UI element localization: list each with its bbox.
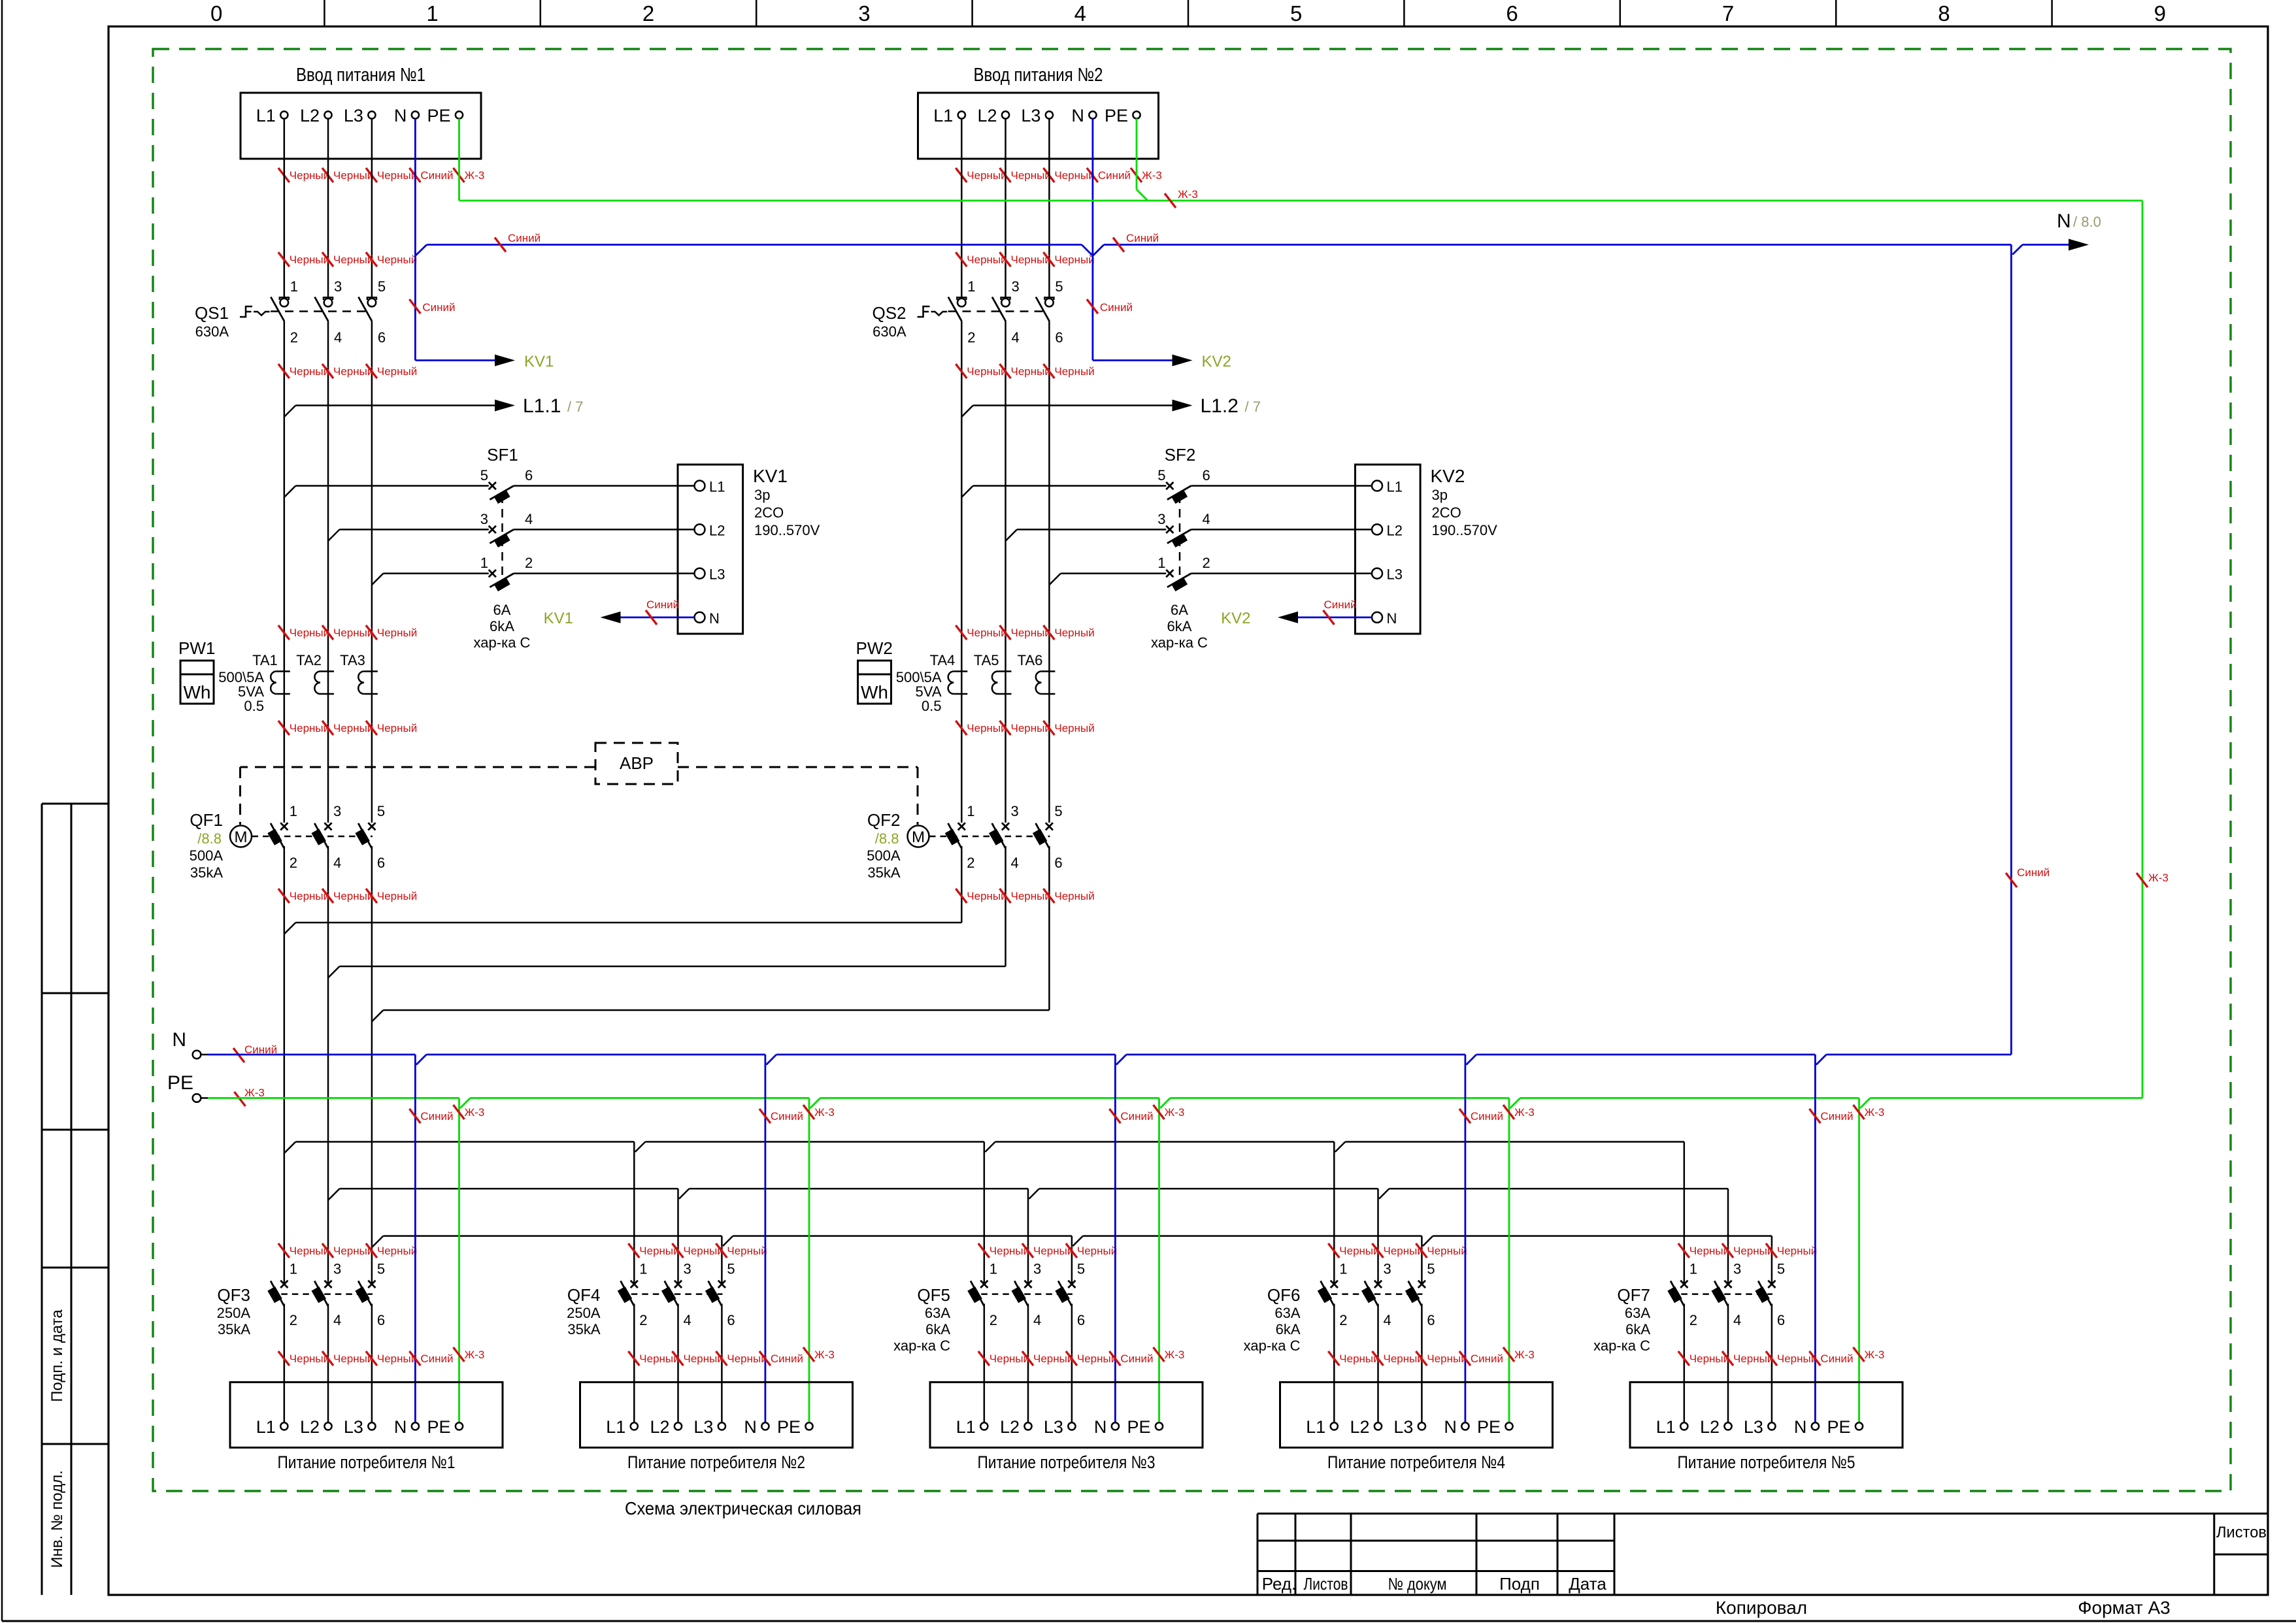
QF pole blade bbox=[314, 1281, 328, 1305]
terminal PE of consumer 5 bbox=[1855, 1422, 1863, 1430]
input terminal box Ввод питания №2 bbox=[918, 93, 1159, 159]
svg-text:3: 3 bbox=[858, 1, 870, 25]
wire to SF pole bbox=[973, 485, 1167, 487]
svg-text:3: 3 bbox=[1012, 278, 1020, 295]
wire label row below QS2 bbox=[956, 252, 967, 267]
svg-text:5: 5 bbox=[1157, 467, 1165, 484]
svg-text:/ 8.0: / 8.0 bbox=[2073, 214, 2101, 230]
wire label Ж-3 on PE bus after input 2 bbox=[1165, 193, 1176, 208]
drop wire L1 from bus1 to QF4 bbox=[633, 1142, 635, 1285]
wire to SF pole bbox=[383, 572, 488, 574]
svg-text:L1: L1 bbox=[1306, 1417, 1325, 1437]
svg-text:N: N bbox=[394, 106, 407, 125]
QF6 mechanical link dashed bbox=[1320, 1293, 1422, 1295]
QF pole release (filled) bbox=[1318, 1287, 1332, 1303]
svg-text:6: 6 bbox=[1077, 1312, 1085, 1328]
svg-text:N: N bbox=[1071, 106, 1084, 125]
wire label row below QF1 bbox=[278, 889, 290, 903]
KV2 terminal L1 bbox=[1372, 481, 1382, 491]
branch arrow to KV2 coil bbox=[1093, 359, 1173, 361]
SF pole contact cross bbox=[489, 570, 496, 577]
svg-text:PE: PE bbox=[1827, 1417, 1850, 1437]
svg-text:L3: L3 bbox=[693, 1417, 713, 1437]
SF pole release (filled) bbox=[493, 533, 510, 548]
svg-text:/ 7: / 7 bbox=[567, 399, 583, 415]
terminal N of consumer 2 bbox=[761, 1422, 769, 1430]
wire from SF pole to KV terminal bbox=[1191, 485, 1373, 487]
terminal PE of consumer 1 bbox=[456, 1422, 463, 1430]
svg-text:Ж-3: Ж-3 bbox=[465, 169, 485, 182]
drop wire L2 from bus2 to QF6 bbox=[1377, 1189, 1379, 1284]
svg-text:0.5: 0.5 bbox=[244, 698, 264, 714]
consumer terminal box 3 bbox=[930, 1382, 1203, 1447]
svg-text:2: 2 bbox=[639, 1312, 647, 1328]
svg-text:0.5: 0.5 bbox=[922, 698, 942, 714]
consumer terminal box 2 bbox=[580, 1382, 853, 1447]
svg-text:Ж-3: Ж-3 bbox=[1165, 1349, 1185, 1361]
QF pole contact cross bbox=[631, 1281, 638, 1288]
wire, upper pin of QS pole at x=434.8 bbox=[284, 119, 286, 298]
SF pole release (filled) bbox=[1171, 577, 1188, 591]
drop wire L3 from bus3 to QF7 bbox=[1771, 1236, 1773, 1285]
QF pole release (filled) bbox=[1033, 828, 1047, 845]
wire label row below input 2 bbox=[956, 168, 967, 182]
svg-text:Черный: Черный bbox=[1077, 1245, 1117, 1257]
svg-text:4: 4 bbox=[333, 1312, 341, 1328]
terminal L3 of consumer 3 bbox=[1068, 1422, 1075, 1430]
wire label Синий on KV2 coil wire bbox=[1323, 610, 1335, 625]
svg-text:5: 5 bbox=[727, 1260, 735, 1277]
svg-text:Черный: Черный bbox=[727, 1245, 767, 1257]
QS blade bbox=[271, 297, 284, 321]
wires QF7 outputs down to consumer box bbox=[1684, 1303, 1686, 1422]
QF pole blade bbox=[271, 1281, 284, 1305]
wire label row below QF3 bbox=[278, 1351, 290, 1366]
QF pole blade bbox=[948, 823, 962, 848]
svg-text:500A: 500A bbox=[867, 847, 901, 864]
svg-text:TA2: TA2 bbox=[296, 652, 322, 668]
terminal PE of consumer 2 bbox=[805, 1422, 812, 1430]
QF pole release (filled) bbox=[267, 828, 282, 845]
svg-text:M: M bbox=[235, 828, 248, 846]
wire branch jog from feeder to SF pole bbox=[328, 529, 340, 541]
svg-text:Питание потребителя №1: Питание потребителя №1 bbox=[278, 1452, 456, 1472]
svg-text:3: 3 bbox=[1033, 1260, 1041, 1277]
terminal N of consumer 4 bbox=[1461, 1422, 1469, 1430]
terminal L3 of consumer 4 bbox=[1418, 1422, 1425, 1430]
svg-text:хар-ка C: хар-ка C bbox=[893, 1337, 950, 1354]
QF pole blade bbox=[621, 1281, 635, 1305]
arrow to KV1 reference bbox=[601, 612, 621, 623]
drop wire L3 from bus3 to QF4 bbox=[721, 1236, 723, 1285]
svg-text:4: 4 bbox=[334, 329, 342, 346]
svg-text:0: 0 bbox=[210, 1, 222, 25]
svg-text:TA1: TA1 bbox=[252, 652, 278, 668]
svg-text:6: 6 bbox=[378, 329, 386, 346]
svg-text:Синий: Синий bbox=[1100, 301, 1133, 314]
svg-text:Синий: Синий bbox=[771, 1352, 803, 1365]
QF pole blade bbox=[271, 823, 284, 848]
wire label Синий on right riser bbox=[2006, 873, 2017, 887]
wire label Ж-3 on PE drop of consumer 1 bbox=[454, 1105, 465, 1119]
svg-text:5: 5 bbox=[378, 278, 386, 295]
svg-text:1: 1 bbox=[1157, 555, 1165, 571]
svg-text:Синий: Синий bbox=[1324, 598, 1357, 611]
QF pole contact cross bbox=[324, 1281, 331, 1288]
svg-text:N: N bbox=[744, 1417, 757, 1437]
svg-text:Синий: Синий bbox=[1098, 169, 1131, 182]
svg-text:Ред.: Ред. bbox=[1262, 1574, 1296, 1594]
QF pole contact cross bbox=[1046, 823, 1053, 830]
svg-text:N: N bbox=[172, 1029, 186, 1051]
terminal L1 of consumer 3 bbox=[980, 1422, 988, 1430]
drop wire L3 from bus3 to QF5 bbox=[1071, 1236, 1073, 1285]
wire, upper pin of QS pole at x=1538.5 bbox=[1005, 119, 1007, 298]
svg-text:Ж-3: Ж-3 bbox=[814, 1106, 835, 1119]
QS fixed contact cap bbox=[280, 297, 289, 300]
QF pole contact cross bbox=[324, 823, 331, 830]
svg-text:SF1: SF1 bbox=[487, 445, 518, 465]
QF pole contact cross bbox=[1680, 1281, 1688, 1288]
svg-text:2: 2 bbox=[290, 855, 297, 871]
wire label Синий on N bus after input 1 bbox=[495, 238, 506, 252]
branch arrow to KV1 coil bbox=[415, 359, 495, 361]
svg-text:№ докум: № докум bbox=[1388, 1574, 1447, 1594]
QF pole blade bbox=[1058, 1281, 1072, 1305]
svg-text:Формат А3: Формат А3 bbox=[2078, 1598, 2171, 1618]
svg-text:35kA: 35kA bbox=[567, 1321, 600, 1337]
SF pole release (filled) bbox=[493, 489, 510, 504]
SF pole blade bbox=[490, 529, 514, 543]
terminal L1 of input 1 bbox=[280, 111, 288, 118]
svg-text:N: N bbox=[394, 1417, 407, 1437]
QF pole contact cross bbox=[368, 823, 375, 830]
svg-text:N: N bbox=[709, 610, 720, 627]
svg-text:2: 2 bbox=[1203, 555, 1210, 571]
wires QF2 outputs down bbox=[961, 846, 963, 923]
svg-text:PW1: PW1 bbox=[178, 638, 215, 658]
wire label Ж-3 on PE drop of consumer 2 bbox=[803, 1105, 814, 1119]
right blue N riser bbox=[2010, 245, 2012, 1055]
KV1 terminal N bbox=[695, 612, 705, 623]
wire label row above QF3 bbox=[278, 1243, 290, 1258]
svg-text:Ж-3: Ж-3 bbox=[1514, 1106, 1535, 1119]
svg-text:L1.1: L1.1 bbox=[523, 395, 561, 417]
svg-text:PE: PE bbox=[167, 1072, 193, 1094]
svg-text:1: 1 bbox=[639, 1260, 647, 1277]
svg-text:6: 6 bbox=[1055, 329, 1063, 346]
QF4 mechanical link dashed bbox=[620, 1293, 722, 1295]
wire label row above TA (input 2) bbox=[956, 625, 967, 640]
title block grid bbox=[1257, 1513, 2268, 1515]
svg-text:6: 6 bbox=[1427, 1312, 1435, 1328]
QF pole contact cross bbox=[280, 823, 288, 830]
terminal L2 of input 1 bbox=[324, 111, 331, 118]
svg-text:6kA: 6kA bbox=[1625, 1321, 1650, 1337]
svg-text:KV2: KV2 bbox=[1431, 466, 1465, 486]
terminal N of consumer 5 bbox=[1812, 1422, 1819, 1430]
interconnect bus L2 bbox=[328, 966, 340, 978]
svg-text:L1: L1 bbox=[606, 1417, 625, 1437]
svg-text:KV2: KV2 bbox=[1202, 353, 1231, 370]
svg-text:Черный: Черный bbox=[1054, 254, 1094, 266]
wire label row above QF5 bbox=[978, 1243, 990, 1258]
QF pole release (filled) bbox=[618, 1287, 632, 1303]
terminal L3 of consumer 1 bbox=[368, 1422, 375, 1430]
wire label Синий on N drop of consumer 3 bbox=[1109, 1109, 1120, 1123]
wires QS1 lower pins down bbox=[284, 321, 286, 823]
net arrow L1.2 / 7 bbox=[961, 406, 973, 418]
QF pole contact cross bbox=[1331, 1281, 1338, 1288]
drop wire L2 from bus2 to QF5 bbox=[1027, 1189, 1029, 1284]
svg-text:Ввод питания №1: Ввод питания №1 bbox=[296, 65, 425, 86]
consumer terminal box 5 bbox=[1630, 1382, 1903, 1447]
QF pole blade bbox=[1365, 1281, 1378, 1305]
wire branch jog from feeder to SF pole bbox=[372, 574, 384, 585]
wire to SF pole bbox=[1017, 529, 1166, 531]
svg-text:QS1: QS1 bbox=[195, 303, 229, 323]
svg-text:3: 3 bbox=[333, 803, 341, 819]
svg-text:L3: L3 bbox=[1387, 566, 1403, 583]
svg-text:L2: L2 bbox=[1000, 1417, 1020, 1437]
drop wire N (blue) to consumer 1 bbox=[414, 1055, 416, 1422]
wire label Синий on N vertical 1 bbox=[409, 299, 420, 314]
drop wire PE (green) to consumer 1 bbox=[458, 1098, 460, 1423]
svg-text:/8.8: /8.8 bbox=[197, 830, 222, 847]
QF pole contact cross bbox=[674, 1281, 682, 1288]
svg-text:2CO: 2CO bbox=[1432, 504, 1461, 521]
terminal N of consumer 3 bbox=[1112, 1422, 1119, 1430]
svg-text:KV1: KV1 bbox=[753, 466, 788, 486]
QS contact circle bbox=[324, 299, 333, 307]
svg-text:6: 6 bbox=[727, 1312, 735, 1328]
svg-text:500A: 500A bbox=[190, 847, 224, 864]
terminal L1 of consumer 2 bbox=[631, 1422, 638, 1430]
wire label Синий on KV1 coil wire bbox=[646, 610, 657, 625]
QF pole blade bbox=[971, 1281, 984, 1305]
automatic transfer switch ABP dashed box bbox=[595, 743, 678, 784]
consumer terminal box 4 bbox=[1280, 1382, 1553, 1447]
svg-text:1: 1 bbox=[1339, 1260, 1347, 1277]
svg-text:PE: PE bbox=[1127, 1417, 1150, 1437]
QF pole release (filled) bbox=[661, 1287, 676, 1303]
svg-text:Черный: Черный bbox=[377, 627, 417, 639]
wire label row below TA (input 1) bbox=[278, 721, 290, 735]
svg-text:4: 4 bbox=[684, 1312, 691, 1328]
svg-text:PE: PE bbox=[777, 1417, 801, 1437]
wire label row 3 below QS1 bbox=[278, 364, 290, 378]
svg-text:6kA: 6kA bbox=[925, 1321, 950, 1337]
SF pole release (filled) bbox=[493, 577, 510, 591]
svg-text:L1: L1 bbox=[1656, 1417, 1676, 1437]
wire, upper pin of QS pole at x=1605.4 bbox=[1048, 119, 1050, 298]
QF pole contact cross bbox=[368, 1281, 375, 1288]
wires QF3 outputs down to consumer box bbox=[284, 1303, 286, 1422]
QF pole contact cross bbox=[1002, 823, 1009, 830]
svg-text:2: 2 bbox=[290, 1312, 297, 1328]
dashed link ABP to QF1 drive bbox=[241, 766, 596, 768]
QS fixed contact cap bbox=[1001, 297, 1010, 300]
terminal L3 of consumer 2 bbox=[718, 1422, 725, 1430]
svg-text:6: 6 bbox=[525, 467, 533, 484]
drop wire N (blue) to consumer 5 bbox=[1814, 1055, 1816, 1422]
QS blade bbox=[948, 297, 962, 321]
KV1 coil N wire (blue) bbox=[620, 617, 695, 619]
QF pole blade bbox=[665, 1281, 678, 1305]
svg-text:хар-ка C: хар-ка C bbox=[1244, 1337, 1301, 1354]
svg-text:L2: L2 bbox=[1700, 1417, 1720, 1437]
svg-text:6A: 6A bbox=[1171, 602, 1188, 618]
svg-text:L1: L1 bbox=[256, 106, 276, 125]
svg-text:3p: 3p bbox=[1432, 487, 1448, 503]
svg-text:Ж-3: Ж-3 bbox=[1178, 188, 1198, 201]
svg-text:L1: L1 bbox=[933, 106, 953, 125]
QF pole release (filled) bbox=[1405, 1287, 1420, 1303]
svg-text:Синий: Синий bbox=[1126, 232, 1159, 244]
drop wire L3 from bus3 to QF6 bbox=[1421, 1236, 1423, 1285]
SF pole release (filled) bbox=[1171, 533, 1188, 548]
QS contact circle bbox=[1001, 299, 1010, 307]
svg-text:N: N bbox=[1794, 1417, 1807, 1437]
svg-text:3: 3 bbox=[334, 278, 342, 295]
svg-text:6: 6 bbox=[1054, 855, 1062, 871]
svg-text:L1: L1 bbox=[956, 1417, 976, 1437]
drop wire N (blue) to consumer 4 bbox=[1464, 1055, 1466, 1422]
SF pole blade bbox=[490, 486, 514, 500]
wire label Синий on N vertical 2 bbox=[1087, 299, 1098, 314]
bottom N bus blue horizontal with branch jogs bbox=[208, 1054, 415, 1056]
svg-text:1: 1 bbox=[290, 1260, 297, 1277]
drop wire L1 from bus1 to QF7 bbox=[1684, 1142, 1686, 1285]
svg-text:6A: 6A bbox=[493, 602, 511, 618]
wire, upper pin of QS pole at x=568.9 bbox=[371, 119, 373, 298]
svg-text:N: N bbox=[2057, 210, 2071, 232]
wire label row below QF6 bbox=[1328, 1351, 1339, 1366]
SF1 mechanical link dashed bbox=[501, 495, 503, 582]
QF pole release (filled) bbox=[1011, 1287, 1025, 1303]
svg-text:5: 5 bbox=[480, 467, 488, 484]
svg-text:TA5: TA5 bbox=[974, 652, 999, 668]
svg-text:6: 6 bbox=[1203, 467, 1210, 484]
svg-text:SF2: SF2 bbox=[1165, 445, 1196, 465]
wire label row above QF4 bbox=[628, 1243, 639, 1258]
SF pole blade bbox=[1167, 574, 1191, 587]
wire label Ж-3 near PE terminal bbox=[235, 1092, 246, 1106]
wire label Ж-3 on PE drop of consumer 3 bbox=[1154, 1105, 1165, 1119]
QF pole contact cross bbox=[1768, 1281, 1775, 1288]
QF7 mechanical link dashed bbox=[1671, 1293, 1772, 1295]
svg-text:5: 5 bbox=[1054, 803, 1062, 819]
svg-text:Ввод питания №2: Ввод питания №2 bbox=[974, 65, 1103, 86]
wire label Ж-3 on PE drop of consumer 5 bbox=[1854, 1105, 1865, 1119]
SF pole release (filled) bbox=[1171, 489, 1188, 504]
QS contact circle bbox=[280, 299, 289, 307]
svg-text:4: 4 bbox=[1012, 329, 1020, 346]
svg-text:Черный: Черный bbox=[377, 722, 417, 734]
svg-text:1: 1 bbox=[1689, 1260, 1697, 1277]
bottom PE bus green horizontal with branch jogs bbox=[208, 1097, 459, 1099]
svg-text:6: 6 bbox=[377, 855, 385, 871]
neutral wire N of input 1 (blue vertical) bbox=[414, 119, 416, 361]
QF1 motor drive M circle bbox=[230, 826, 252, 847]
QF pole blade bbox=[1408, 1281, 1422, 1305]
terminal L1 of input 2 bbox=[958, 111, 965, 118]
wire to SF pole bbox=[295, 485, 489, 487]
QF pole release (filled) bbox=[967, 1287, 982, 1303]
SF2 mechanical link dashed bbox=[1179, 495, 1181, 582]
QF pole release (filled) bbox=[311, 828, 325, 845]
svg-text:3: 3 bbox=[333, 1260, 341, 1277]
svg-text:5: 5 bbox=[377, 1260, 385, 1277]
QF pole contact cross bbox=[1418, 1281, 1425, 1288]
QF pole contact cross bbox=[280, 1281, 288, 1288]
wire from SF pole to KV terminal bbox=[514, 485, 695, 487]
svg-text:250A: 250A bbox=[567, 1305, 601, 1321]
svg-text:5: 5 bbox=[1427, 1260, 1435, 1277]
column ruler line and ticks bbox=[324, 0, 325, 27]
svg-text:4: 4 bbox=[525, 511, 533, 527]
QF pole contact cross bbox=[1374, 1281, 1382, 1288]
svg-text:Подп. и дата: Подп. и дата bbox=[48, 1309, 66, 1402]
SF pole contact cross bbox=[489, 526, 496, 533]
QS2 manual drive symbol bbox=[918, 306, 930, 317]
SF pole contact cross bbox=[1166, 482, 1173, 489]
svg-text:6kA: 6kA bbox=[490, 618, 514, 634]
svg-text:Черный: Черный bbox=[1054, 890, 1094, 902]
svg-text:1: 1 bbox=[290, 803, 297, 819]
QF pole blade bbox=[358, 823, 372, 848]
wires QF5 outputs down to consumer box bbox=[984, 1303, 986, 1422]
QF pole contact cross bbox=[958, 823, 965, 830]
QS fixed contact cap bbox=[957, 297, 966, 300]
node N source terminal bbox=[193, 1051, 201, 1059]
net arrow N / 8.0 bbox=[2012, 245, 2022, 255]
svg-text:Черный: Черный bbox=[1054, 365, 1094, 378]
relay KV2 box bbox=[1356, 465, 1421, 634]
svg-text:Ж-3: Ж-3 bbox=[1514, 1349, 1535, 1361]
svg-text:N: N bbox=[1444, 1417, 1457, 1437]
wire label Синий on N drop of consumer 4 bbox=[1459, 1109, 1471, 1123]
svg-text:Ж-3: Ж-3 bbox=[465, 1349, 485, 1361]
svg-text:Дата: Дата bbox=[1569, 1574, 1606, 1594]
svg-text:Синий: Синий bbox=[1820, 1110, 1853, 1123]
QF pole blade bbox=[358, 1281, 372, 1305]
terminal L1 of consumer 1 bbox=[280, 1422, 288, 1430]
QF pole blade bbox=[1758, 1281, 1772, 1305]
svg-text:Ж-3: Ж-3 bbox=[1165, 1106, 1185, 1119]
svg-text:TA6: TA6 bbox=[1018, 652, 1043, 668]
svg-text:Черный: Черный bbox=[1427, 1245, 1467, 1257]
terminal L2 of consumer 1 bbox=[324, 1422, 331, 1430]
svg-text:4: 4 bbox=[333, 855, 341, 871]
wire branch jog from feeder to SF pole bbox=[961, 486, 973, 498]
wire label Ж-3 on PE drop of consumer 4 bbox=[1503, 1105, 1514, 1119]
QS fixed contact cap bbox=[1044, 297, 1054, 300]
drop wire L1 from bus1 to QF5 bbox=[984, 1142, 986, 1285]
svg-text:Синий: Синий bbox=[1471, 1352, 1503, 1365]
svg-text:L2: L2 bbox=[650, 1417, 669, 1437]
svg-text:L1: L1 bbox=[709, 479, 725, 495]
terminal PE of consumer 4 bbox=[1505, 1422, 1512, 1430]
svg-text:/ 7: / 7 bbox=[1245, 399, 1261, 415]
svg-text:3: 3 bbox=[1384, 1260, 1391, 1277]
svg-text:250A: 250A bbox=[217, 1305, 251, 1321]
top N bus (blue horizontal) bbox=[415, 245, 427, 256]
QS blade bbox=[358, 297, 372, 321]
wire to SF pole bbox=[1061, 572, 1166, 574]
svg-text:Wh: Wh bbox=[184, 682, 211, 702]
QF2 mechanical link dashed bbox=[929, 836, 1050, 838]
